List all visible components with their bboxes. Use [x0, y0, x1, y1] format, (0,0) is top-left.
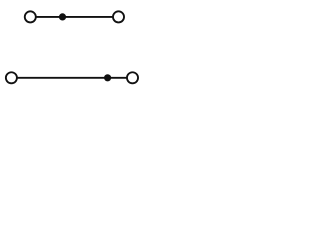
terminal (top left) — [25, 11, 36, 22]
wire (bottom net) — [12, 77, 133, 79]
wire (top net) — [31, 16, 119, 18]
node junction (top) — [59, 13, 66, 20]
terminal (bottom left) — [6, 72, 17, 83]
terminal (top right) — [113, 11, 124, 22]
node junction (bottom) — [104, 74, 111, 81]
terminal (bottom right) — [127, 72, 138, 83]
